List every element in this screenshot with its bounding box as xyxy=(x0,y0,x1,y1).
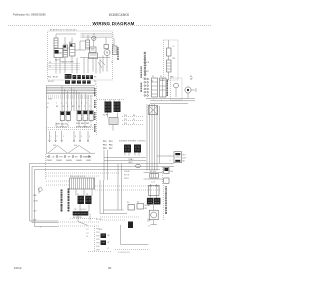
svg-text:P13: P13 xyxy=(109,141,112,143)
svg-text:P14: P14 xyxy=(103,144,107,147)
svg-text:BK W R BU: BK W R BU xyxy=(73,217,83,219)
svg-text:R: R xyxy=(67,106,69,108)
svg-text:P51: P51 xyxy=(96,232,99,234)
svg-text:BK: BK xyxy=(183,161,186,163)
svg-text:1 2: 1 2 xyxy=(111,62,113,64)
svg-text:P: P xyxy=(95,84,97,86)
svg-text:P17 W: P17 W xyxy=(124,175,129,177)
svg-text:R: R xyxy=(108,248,110,250)
svg-text:6: 6 xyxy=(89,136,90,138)
svg-text:Y: Y xyxy=(89,106,91,108)
svg-text:3000W: 3000W xyxy=(66,160,72,162)
svg-text:4: 4 xyxy=(71,103,72,105)
svg-text:1: 1 xyxy=(170,156,171,158)
svg-text:P4: P4 xyxy=(152,76,154,78)
svg-text:4: 4 xyxy=(75,136,76,138)
svg-text:RLY: RLY xyxy=(183,155,187,157)
svg-text:BU: BU xyxy=(72,106,75,108)
svg-text:BK W R: BK W R xyxy=(150,171,157,173)
svg-text:WIRING DIAGRAM: WIRING DIAGRAM xyxy=(93,21,135,26)
svg-text:LR: LR xyxy=(52,157,55,159)
svg-text:RF: RF xyxy=(68,157,71,159)
svg-text:2: 2 xyxy=(170,160,171,162)
svg-text:J2: J2 xyxy=(86,194,88,196)
svg-text:P55: P55 xyxy=(96,246,99,248)
svg-text:5: 5 xyxy=(76,103,77,105)
svg-text:W: W xyxy=(108,242,110,244)
svg-text:N W: N W xyxy=(33,220,37,222)
svg-text:BK BR W R GY V Y BU OR: BK BR W R GY V Y BU OR GN T xyxy=(50,30,78,32)
svg-text:L2 R: L2 R xyxy=(33,211,37,213)
svg-text:1200W: 1200W xyxy=(56,160,62,162)
svg-text:P5: P5 xyxy=(160,76,162,78)
svg-text:100W: 100W xyxy=(86,160,91,162)
svg-text:P8: P8 xyxy=(94,77,96,79)
svg-text:SW3 SW4 SW5: SW3 SW4 SW5 xyxy=(76,123,89,125)
svg-text:W: W xyxy=(62,106,64,108)
svg-text:P12: P12 xyxy=(124,123,127,125)
svg-text:7: 7 xyxy=(86,103,87,105)
svg-text:P11: P11 xyxy=(124,119,127,121)
svg-text:1400W: 1400W xyxy=(76,160,82,162)
svg-text:TB: TB xyxy=(74,209,77,211)
svg-text:L1: L1 xyxy=(47,103,49,105)
svg-text:5: 5 xyxy=(81,136,82,138)
svg-text:SW1 SW2 K5: SW1 SW2 K5 xyxy=(56,124,68,126)
svg-text:N1: N1 xyxy=(49,62,51,64)
svg-text:3: 3 xyxy=(63,136,64,138)
svg-text:Publication No. 5995532680: Publication No. 5995532680 xyxy=(13,13,46,17)
svg-text:L1 BK: L1 BK xyxy=(33,201,38,203)
svg-text:RF RR WARM R: RF RR WARM R xyxy=(76,125,91,128)
svg-text:BD: BD xyxy=(145,208,148,210)
svg-text:BK: BK xyxy=(56,106,59,108)
svg-text:240V: 240V xyxy=(48,99,53,101)
svg-text:K2: K2 xyxy=(69,42,71,44)
svg-text:P12: P12 xyxy=(103,141,106,143)
svg-text:3: 3 xyxy=(66,103,67,105)
svg-text:20: 20 xyxy=(108,266,112,270)
svg-text:1: 1 xyxy=(51,136,52,138)
svg-text:L1 N L2: L1 N L2 xyxy=(80,209,86,211)
svg-text:6: 6 xyxy=(81,103,82,105)
svg-text:2: 2 xyxy=(61,103,62,105)
svg-text:L1: L1 xyxy=(49,66,51,68)
svg-text:OR: OR xyxy=(144,74,147,76)
svg-text:LF LR BK W: LF LR BK W xyxy=(56,126,67,128)
svg-text:WARMER: WARMER xyxy=(83,156,92,159)
svg-text:P17: P17 xyxy=(109,148,112,150)
svg-text:K3: K3 xyxy=(127,202,129,204)
svg-text:BK: BK xyxy=(144,59,147,61)
svg-text:P20 1 2 3 4 5 6 7 8: P20 1 2 3 4 5 6 7 8 xyxy=(70,176,85,178)
svg-text:BK W: BK W xyxy=(53,77,58,79)
svg-text:DLB: DLB xyxy=(183,158,187,160)
svg-text:BK: BK xyxy=(133,115,136,117)
svg-text:P9: P9 xyxy=(94,81,96,83)
svg-text:L2: L2 xyxy=(87,233,89,235)
svg-text:SU2: SU2 xyxy=(74,145,77,147)
svg-text:TRANSFORMER: TRANSFORMER xyxy=(60,61,75,64)
svg-text:1: 1 xyxy=(56,103,57,105)
svg-text:P18 R: P18 R xyxy=(124,178,129,180)
svg-text:P16: P16 xyxy=(103,148,106,150)
svg-text:1: 1 xyxy=(153,100,154,102)
svg-text:K4: K4 xyxy=(137,202,139,204)
svg-text:P16 BK: P16 BK xyxy=(124,171,131,173)
svg-text:P56: P56 xyxy=(96,250,99,252)
svg-text:N L1 R: N L1 R xyxy=(48,81,54,83)
svg-text:CTR: CTR xyxy=(59,157,63,159)
svg-text:N: N xyxy=(87,236,89,238)
svg-text:TRIAC: TRIAC xyxy=(128,158,134,161)
svg-text:P53: P53 xyxy=(96,239,99,241)
svg-text:L1: L1 xyxy=(87,229,89,231)
svg-text:SURFACE ELEMENT CONTROL: SURFACE ELEMENT CONTROL xyxy=(119,140,146,143)
svg-text:N: N xyxy=(47,107,49,109)
svg-text:P40: P40 xyxy=(170,171,173,173)
svg-text:RLY1: RLY1 xyxy=(55,60,60,62)
svg-text:2: 2 xyxy=(161,100,162,102)
svg-text:P24: P24 xyxy=(48,77,51,79)
svg-text:FAN: FAN xyxy=(170,76,174,79)
svg-text:G: G xyxy=(40,227,42,229)
svg-text:P4: P4 xyxy=(151,81,153,83)
svg-text:BK: BK xyxy=(108,235,111,237)
svg-text:SU1: SU1 xyxy=(53,145,56,147)
svg-text:1700W: 1700W xyxy=(46,160,52,162)
svg-text:1 2 3: 1 2 3 xyxy=(151,182,155,184)
svg-text:1 2: 1 2 xyxy=(148,226,150,228)
svg-text:BAKE: BAKE xyxy=(160,79,166,82)
svg-text:EI30EC45KS: EI30EC45KS xyxy=(109,13,130,17)
svg-text:10/12: 10/12 xyxy=(14,266,22,270)
svg-text:P54: P54 xyxy=(96,243,99,245)
svg-text:LIGHT: LIGHT xyxy=(144,71,149,73)
svg-text:P15: P15 xyxy=(109,145,112,147)
svg-text:BK: BK xyxy=(190,76,193,78)
svg-text:GY OR: GY OR xyxy=(96,219,102,221)
svg-text:J1: J1 xyxy=(77,194,79,196)
svg-text:BK: BK xyxy=(173,58,176,60)
svg-text:1 2 3 4 5 6 7 8: 1 2 3 4 5 6 7 8 xyxy=(118,252,130,254)
svg-text:2: 2 xyxy=(57,136,58,138)
svg-text:P10: P10 xyxy=(124,115,127,117)
svg-text:P52: P52 xyxy=(96,236,99,238)
svg-text:P50: P50 xyxy=(96,229,99,231)
svg-text:SW: SW xyxy=(144,65,147,67)
svg-text:GY: GY xyxy=(78,106,81,108)
svg-text:M: M xyxy=(149,220,151,222)
svg-text:DOOR: DOOR xyxy=(144,62,150,64)
svg-text:L1: L1 xyxy=(173,46,175,48)
svg-text:RELAY: RELAY xyxy=(145,204,152,207)
svg-text:RR: RR xyxy=(75,157,78,159)
svg-text:P7: P7 xyxy=(144,78,146,80)
svg-text:GND: GND xyxy=(33,195,38,197)
